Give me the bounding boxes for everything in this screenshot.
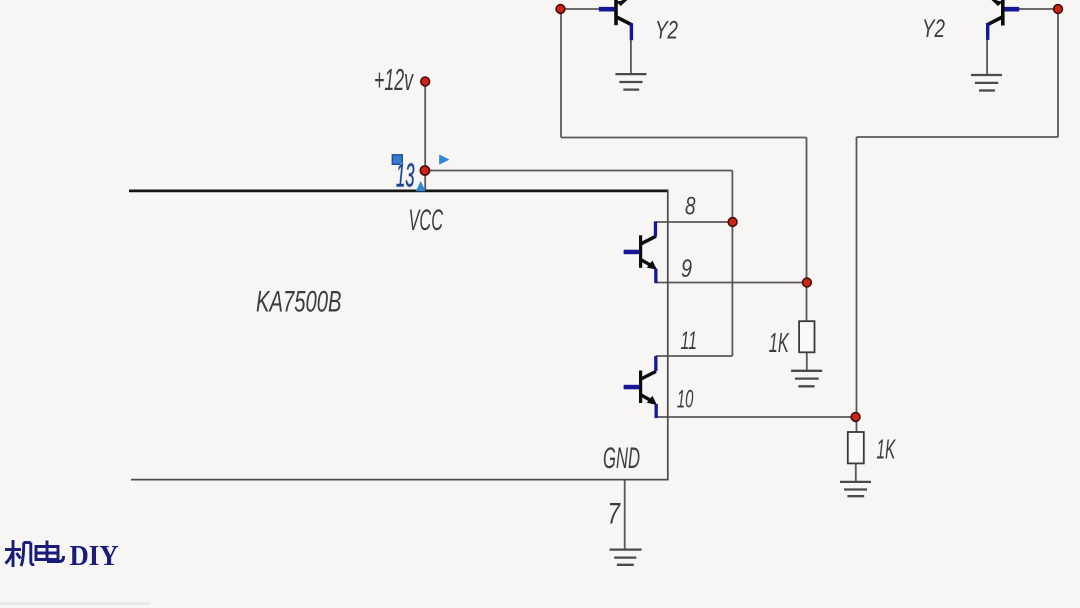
svg-text:1K: 1K	[769, 327, 790, 358]
IC U1 bottom edge	[131, 479, 669, 481]
node: left Y2 collector	[556, 5, 565, 14]
marker: blue up arrow	[416, 181, 426, 191]
transistor Y2 right	[986, 0, 1019, 40]
wire: left Y2 node drop	[560, 9, 562, 138]
marker: blue right arrow	[439, 155, 449, 165]
node: +12v	[421, 77, 430, 86]
wire: right Y2 emitter to ground	[986, 39, 988, 75]
ground (R2)	[840, 482, 871, 496]
resistor R1 1K	[799, 321, 814, 352]
marker: blue selection square	[392, 155, 402, 165]
wire: pin 7 lead	[624, 480, 626, 549]
ground (pin 7)	[610, 550, 642, 565]
svg-text:10: 10	[677, 385, 694, 413]
wire: pin 9 lead	[656, 282, 807, 284]
svg-text:1K: 1K	[876, 434, 896, 465]
wire: drop to pin 8 node and pin 11	[731, 171, 733, 357]
wire: pin 8 lead	[656, 221, 733, 223]
node: pin 13	[420, 166, 429, 175]
ground (right Y2)	[971, 75, 1002, 91]
wire: pin 11 lead	[656, 355, 733, 357]
wire: pin 10 lead	[656, 416, 857, 418]
wire: right Y2 node drop	[1057, 9, 1059, 137]
ground (R1)	[791, 371, 822, 387]
transistor Q2 (pins 11/10)	[624, 356, 658, 418]
ground (left Y2)	[615, 74, 646, 90]
node: pin 9	[803, 278, 812, 287]
wire: right Y2 base to node	[1019, 8, 1058, 10]
svg-text:KA7500B: KA7500B	[256, 285, 342, 318]
wire: drop to pin 10 node	[856, 137, 858, 433]
svg-text:VCC: VCC	[409, 204, 444, 237]
svg-text:7: 7	[608, 498, 621, 531]
IC U1 right edge	[667, 190, 669, 480]
svg-text:13: 13	[396, 157, 415, 194]
wire: +12v drop to pin 13	[424, 82, 426, 191]
svg-text:GND: GND	[603, 442, 640, 475]
svg-text:9: 9	[681, 255, 692, 283]
faint progress bar bottom left	[0, 602, 150, 605]
wire: R1 to ground	[806, 352, 808, 371]
svg-text:11: 11	[681, 327, 698, 355]
svg-text:+12v: +12v	[374, 62, 414, 97]
node: pin 10	[851, 413, 860, 422]
svg-text:DIY: DIY	[70, 540, 119, 572]
watermark 机电DIY	[5, 540, 64, 567]
wire: R2 to ground	[855, 463, 857, 482]
node: right Y2 collector	[1054, 5, 1063, 14]
svg-text:8: 8	[685, 193, 696, 221]
wire: left Y2 horizontal run	[561, 137, 807, 139]
wire: left Y2 base to node	[561, 8, 600, 10]
resistor R2 1K	[848, 432, 864, 463]
node: pin 8	[728, 218, 737, 227]
IC U1 KA7500B top edge	[129, 189, 669, 192]
svg-text:Y2: Y2	[922, 15, 945, 43]
wire: drop to pin 9 node	[806, 138, 808, 322]
wire: right Y2 horizontal run	[857, 136, 1059, 138]
wire: pin 13 horizontal run	[425, 170, 732, 172]
wire: left Y2 emitter to ground	[630, 39, 632, 74]
svg-text:Y2: Y2	[655, 17, 678, 45]
transistor Q1 (pins 8/9)	[624, 221, 658, 283]
transistor Y2 left	[599, 0, 633, 40]
